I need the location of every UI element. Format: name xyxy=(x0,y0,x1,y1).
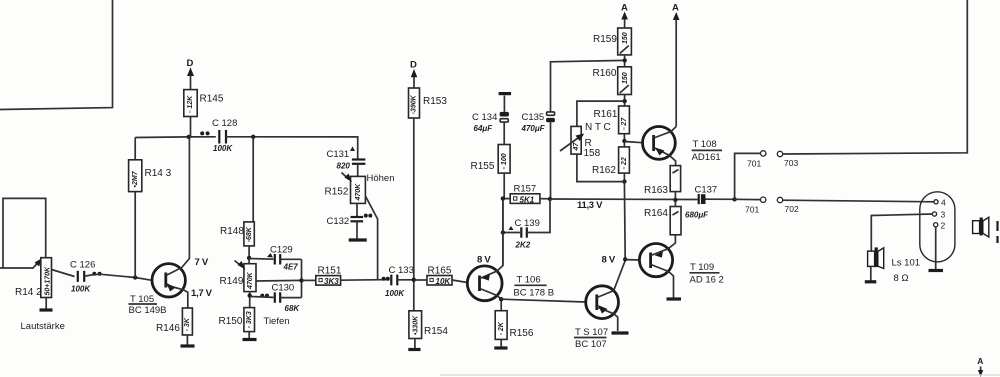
transistor T105 xyxy=(152,137,189,308)
node R157 left xyxy=(501,196,505,200)
svg-text:C 139: C 139 xyxy=(515,218,540,229)
label R158 xyxy=(584,138,601,159)
svg-text:2: 2 xyxy=(941,221,946,231)
svg-text:▫ 3K: ▫ 3K xyxy=(184,317,191,331)
svg-text:5K1: 5K1 xyxy=(520,195,535,204)
ground socket xyxy=(929,269,944,272)
node R162 bottom junction xyxy=(622,179,626,183)
svg-text:100K: 100K xyxy=(385,289,405,298)
svg-text:7 V: 7 V xyxy=(195,257,209,268)
svg-text:C131: C131 xyxy=(327,149,350,160)
svg-text:T 106: T 106 xyxy=(517,275,541,286)
svg-text:4: 4 xyxy=(941,198,946,208)
svg-text:C137: C137 xyxy=(695,185,718,196)
node dots before C133 xyxy=(382,277,390,281)
svg-text:R161: R161 xyxy=(594,109,618,120)
supply A arrow 1 xyxy=(621,3,628,29)
resistor R165 xyxy=(414,276,468,286)
svg-text:R146: R146 xyxy=(156,323,180,334)
supply D arrow 2 xyxy=(410,60,417,89)
svg-text:10K: 10K xyxy=(436,277,452,286)
svg-text:703: 703 xyxy=(784,158,798,168)
speaker right channel xyxy=(973,217,989,237)
svg-text:702: 702 xyxy=(785,204,799,214)
transistor T106 xyxy=(467,199,503,311)
node dots right of C132 xyxy=(364,214,373,218)
svg-text:8 Ω: 8 Ω xyxy=(894,273,909,284)
potentiometer R152 xyxy=(342,173,366,204)
node C137 right junction xyxy=(732,197,736,201)
resistor R145 xyxy=(184,76,197,137)
wire R142 top feed xyxy=(3,198,46,268)
svg-text:▫ 2K: ▫ 2K xyxy=(498,321,505,335)
svg-text:T S 107: T S 107 xyxy=(575,327,608,338)
svg-text:Tiefen: Tiefen xyxy=(264,316,290,327)
svg-text:470μF: 470μF xyxy=(521,124,546,133)
wire C128 to Hoehen branch xyxy=(226,137,358,160)
svg-text:R152: R152 xyxy=(325,187,349,198)
node dots before C130 xyxy=(260,294,269,298)
svg-text:R160: R160 xyxy=(593,68,617,79)
ground C132 xyxy=(349,238,367,241)
label T108 xyxy=(692,139,722,163)
node base junction xyxy=(133,275,137,279)
svg-text:▫ 3K3: ▫ 3K3 xyxy=(246,311,253,328)
node R159/R160 junction xyxy=(623,58,627,62)
wire C129/C130 right bus xyxy=(301,259,303,297)
svg-text:C130: C130 xyxy=(272,283,295,294)
wire main top rail xyxy=(135,136,216,139)
svg-text:N T C: N T C xyxy=(585,122,611,133)
wire R152 wiper to C133 node xyxy=(365,196,377,279)
svg-text:AD161: AD161 xyxy=(692,152,721,163)
node R149 bottom junction xyxy=(248,292,252,308)
svg-text:▫68K: ▫68K xyxy=(246,226,253,242)
ground R150 xyxy=(243,332,257,340)
svg-text:A: A xyxy=(977,356,983,366)
capacitor C128 xyxy=(212,118,237,153)
svg-text:▪2M7: ▪2M7 xyxy=(132,170,139,187)
svg-text:R165: R165 xyxy=(428,266,452,277)
svg-text:D: D xyxy=(187,58,194,69)
socket pin 3 xyxy=(932,210,945,220)
node dots after C126 xyxy=(92,272,101,276)
capacitor C135 xyxy=(521,60,625,199)
resistor R146 xyxy=(182,308,192,335)
terminal 701 lower xyxy=(761,197,766,202)
svg-text:4E7: 4E7 xyxy=(283,263,299,272)
potentiometer R149 xyxy=(235,258,302,292)
resistor R160 xyxy=(618,67,632,106)
ground R154 xyxy=(408,339,420,350)
label cut right edge xyxy=(996,221,998,243)
node R145 bottom junction xyxy=(187,135,191,139)
ground T109 xyxy=(667,297,682,300)
wire C137 junction to terminal 701b xyxy=(735,198,761,200)
svg-text:▫ 22: ▫ 22 xyxy=(621,157,628,169)
wire R151 to C133 xyxy=(341,279,390,282)
svg-text:R14 2: R14 2 xyxy=(15,287,42,298)
svg-text:3: 3 xyxy=(941,210,946,220)
wire 11,3V rail xyxy=(550,198,698,201)
node R160 bottom junction xyxy=(622,99,626,103)
wire pin 2 to ground xyxy=(935,227,937,269)
node bus junction xyxy=(299,278,316,282)
svg-text:47: 47 xyxy=(573,142,580,152)
label T106 xyxy=(513,275,554,299)
ground R142 xyxy=(40,298,53,311)
terminal 702 xyxy=(777,197,782,202)
resistor R164 xyxy=(668,200,681,249)
svg-text:64μF: 64μF xyxy=(474,124,494,133)
svg-text:Höhen: Höhen xyxy=(367,173,395,184)
resistor R155 xyxy=(498,123,510,199)
svg-text:D: D xyxy=(410,60,417,71)
svg-text:2K2: 2K2 xyxy=(515,241,531,250)
wire junction to R158 top xyxy=(577,101,625,126)
transistor T109 xyxy=(639,244,673,298)
wire wiper to C126 xyxy=(52,270,75,277)
svg-text:68K: 68K xyxy=(285,304,301,313)
svg-text:R148: R148 xyxy=(220,226,244,237)
capacitor C131 xyxy=(327,147,366,177)
capacitor C139 xyxy=(503,199,550,250)
svg-text:C129: C129 xyxy=(270,245,293,256)
svg-text:BC 107: BC 107 xyxy=(575,339,607,350)
wire R162 junction down to T109 base node xyxy=(623,182,626,260)
svg-text:A: A xyxy=(672,3,679,14)
svg-text:C 126: C 126 xyxy=(70,260,95,271)
capacitor C132 xyxy=(327,203,364,238)
wire C128 junction down to R148 xyxy=(252,137,254,222)
svg-text:C 133: C 133 xyxy=(389,265,414,276)
node R148 bottom junction xyxy=(247,256,251,260)
svg-text:C 128: C 128 xyxy=(212,118,237,129)
svg-text:158: 158 xyxy=(584,148,601,159)
svg-text:AD 16 2: AD 16 2 xyxy=(690,275,724,286)
node R157 right / C135 bottom xyxy=(548,197,552,201)
resistor R153 xyxy=(409,88,420,118)
svg-text:470K: 470K xyxy=(355,183,362,202)
terminal 701 upper xyxy=(761,151,766,156)
svg-text:150: 150 xyxy=(622,72,629,84)
capacitor C137 xyxy=(685,185,735,220)
svg-text:470K: 470K xyxy=(247,271,254,290)
ground TS107 xyxy=(612,331,629,334)
capacitor C130 xyxy=(250,283,302,314)
node R163/R164 junction xyxy=(673,198,677,202)
capacitor C134 xyxy=(472,94,511,133)
node C139 left xyxy=(501,230,505,234)
svg-text:680μF: 680μF xyxy=(685,211,709,220)
svg-text:Ls 101: Ls 101 xyxy=(892,258,921,269)
svg-text:100K: 100K xyxy=(71,285,91,294)
label T109 xyxy=(690,262,724,286)
capacitor C129 xyxy=(249,245,301,272)
svg-text:▫ 100: ▫ 100 xyxy=(501,153,508,169)
svg-text:11,3 V: 11,3 V xyxy=(577,200,603,211)
svg-text:T 108: T 108 xyxy=(693,139,717,150)
label T105 xyxy=(129,294,167,316)
node T106 collector junction xyxy=(499,297,503,301)
node T108 base junction xyxy=(622,139,642,143)
capacitor C126 xyxy=(70,260,95,294)
label TS107 xyxy=(574,327,608,350)
resistor R163 xyxy=(670,166,680,200)
socket shell xyxy=(920,192,955,262)
node 8V junction xyxy=(623,257,640,261)
wire pin 3 to speaker xyxy=(871,214,932,251)
potentiometer R158 xyxy=(560,126,584,154)
svg-text:R157: R157 xyxy=(514,184,537,195)
ground R146 xyxy=(181,335,195,346)
potentiometer R142 wiper arrow xyxy=(33,259,42,269)
socket pin 2 xyxy=(934,221,946,231)
svg-text:R154: R154 xyxy=(424,326,448,337)
resistor R143 xyxy=(129,138,142,278)
resistor R157 xyxy=(503,194,550,205)
svg-text:8 V: 8 V xyxy=(477,255,491,266)
svg-text:C 134: C 134 xyxy=(472,112,497,123)
svg-text:8 V: 8 V xyxy=(602,255,616,266)
potentiometer R142 xyxy=(41,258,52,298)
svg-text:R156: R156 xyxy=(510,328,534,339)
svg-text:▪330K: ▪330K xyxy=(412,315,419,335)
svg-text:R162: R162 xyxy=(592,165,616,176)
resistor R162 xyxy=(619,147,630,182)
svg-text:T 109: T 109 xyxy=(690,262,714,273)
label A bottom xyxy=(977,356,983,377)
supply A arrow 2 xyxy=(672,3,680,127)
speaker Ls101 xyxy=(865,247,884,281)
wire T106 emitter node down xyxy=(502,199,504,266)
svg-text:701: 701 xyxy=(745,205,759,215)
svg-text:R14 3: R14 3 xyxy=(145,168,172,179)
supply D arrow 1 xyxy=(187,58,195,76)
svg-text:50+170K: 50+170K xyxy=(44,266,51,296)
svg-text:BC 149B: BC 149B xyxy=(129,305,167,316)
svg-text:1,7 V: 1,7 V xyxy=(191,288,213,299)
wire 702 to socket pin 4 xyxy=(783,200,934,202)
transistor TS107 xyxy=(586,261,626,332)
resistor R154 xyxy=(409,311,422,339)
wire junction to R158 bottom xyxy=(577,154,625,182)
resistor R150 xyxy=(244,308,255,332)
svg-text:R159: R159 xyxy=(593,34,617,45)
resistor R159 xyxy=(618,28,632,67)
node dots before C128 xyxy=(200,131,209,135)
svg-text:3K3: 3K3 xyxy=(324,277,339,286)
svg-text:R145: R145 xyxy=(200,94,224,105)
transistor T108 xyxy=(643,126,677,165)
wire top-left box corner xyxy=(0,0,113,110)
svg-text:C135: C135 xyxy=(522,112,545,123)
wire R153 to R154 xyxy=(413,118,415,311)
scan fold line xyxy=(440,374,1000,376)
svg-text:820: 820 xyxy=(337,162,351,171)
svg-text:R163: R163 xyxy=(644,185,668,196)
svg-text:▫ 12K: ▫ 12K xyxy=(187,95,194,113)
terminal 703 xyxy=(777,151,782,156)
svg-text:▫390K: ▫390K xyxy=(411,94,418,114)
socket pin 4 xyxy=(934,198,946,208)
node C128 right junction xyxy=(251,135,255,139)
node C133/R165 junction xyxy=(412,278,416,282)
resistor R148 xyxy=(244,222,254,258)
svg-text:C132: C132 xyxy=(327,216,350,227)
capacitor C133 xyxy=(385,265,414,298)
svg-text:R149: R149 xyxy=(220,276,244,287)
svg-text:R151: R151 xyxy=(318,266,342,277)
wire 703 to top right xyxy=(783,0,968,154)
svg-text:R164: R164 xyxy=(644,208,668,219)
wire C126 to T105 base xyxy=(84,274,152,280)
resistor R151 xyxy=(316,276,341,286)
svg-text:R150: R150 xyxy=(219,316,243,327)
svg-text:R153: R153 xyxy=(423,96,447,107)
svg-text:BC 178 B: BC 178 B xyxy=(513,288,554,299)
svg-text:150: 150 xyxy=(622,32,629,44)
resistor R161 xyxy=(619,106,630,147)
svg-text:701: 701 xyxy=(747,159,761,169)
wire T106 collector to TS107 base xyxy=(501,299,586,302)
svg-text:100K: 100K xyxy=(213,144,233,153)
svg-text:▫ 27: ▫ 27 xyxy=(621,117,628,130)
wire input to wiper xyxy=(0,267,34,269)
ground R156 xyxy=(494,339,507,348)
svg-text:Lautstärke: Lautstärke xyxy=(21,321,65,332)
svg-text:R155: R155 xyxy=(471,161,495,172)
wire up to terminal 701a xyxy=(735,153,761,199)
resistor R156 xyxy=(495,311,507,340)
